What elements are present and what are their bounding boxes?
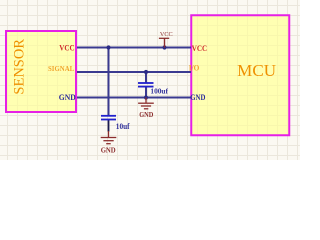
svg-text:GND: GND bbox=[139, 110, 153, 119]
svg-text:SENSOR: SENSOR bbox=[12, 39, 28, 95]
svg-text:10uf: 10uf bbox=[116, 122, 130, 131]
svg-text:I/O: I/O bbox=[189, 63, 200, 72]
svg-text:SIGNAL: SIGNAL bbox=[48, 64, 74, 73]
svg-text:GND: GND bbox=[190, 93, 205, 102]
svg-text:VCC: VCC bbox=[59, 43, 74, 52]
svg-text:MCU: MCU bbox=[237, 61, 276, 80]
svg-text:100uf: 100uf bbox=[150, 88, 168, 96]
svg-text:VCC: VCC bbox=[160, 31, 173, 38]
svg-text:GND: GND bbox=[59, 93, 76, 102]
svg-text:GND: GND bbox=[101, 145, 117, 154]
svg-text:VCC: VCC bbox=[192, 44, 207, 53]
